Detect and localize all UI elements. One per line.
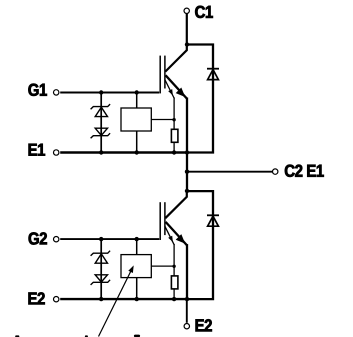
node collector2 junction (185, 189, 189, 193)
caption fragment letter f (134, 335, 140, 337)
IGBT Q1 emitter diagonal (166, 75, 187, 98)
wire block1 bottom lead (136, 131, 138, 153)
IGBT Q2 collector diagonal (165, 191, 187, 218)
IGBT Q1 collector diagonal (165, 45, 187, 72)
resistor R2 (171, 276, 178, 289)
IGBT Q1 body bar right (164, 56, 166, 89)
annotation arrow to control block (99, 265, 134, 336)
node collector1 junction (185, 42, 189, 46)
wire E2 (60, 298, 187, 300)
wire block2 bottom lead (136, 278, 138, 300)
IGBT Q2 sense emitter diagonal (165, 226, 175, 245)
wire diode1 branch (187, 45, 213, 153)
terminal E2 left (54, 297, 59, 302)
node E2 resistor junction (172, 297, 176, 301)
node G1 block junction (135, 90, 139, 94)
terminal C1 (184, 8, 189, 13)
wire E2 terminal vertical (186, 299, 188, 323)
IGBT Q1 emitter arrowhead (176, 88, 186, 98)
IGBT Q2 emitter diagonal (166, 222, 187, 245)
label C2 E1 (285, 165, 324, 177)
IGBT Q1 sense arrowhead (168, 89, 173, 95)
zener diode Z3 (91, 251, 111, 264)
IGBT Q2 emitter arrowhead (176, 234, 186, 244)
zener diode Z4 (91, 275, 111, 285)
wire resistor1 bottom lead (173, 142, 175, 152)
wire C1 vertical (186, 14, 188, 45)
wire zener1 vertical (100, 93, 102, 153)
wire block1 right lead (151, 119, 174, 121)
terminal G1 (54, 90, 59, 95)
wire zener2 vertical (100, 239, 102, 299)
IGBT Q2 sense arrowhead (168, 236, 173, 242)
wire block2 top lead (136, 239, 138, 255)
node G2 block junction (135, 237, 139, 241)
wire G1 (60, 92, 159, 94)
control block U2 (121, 255, 151, 278)
IGBT Q1 gate bar left (159, 56, 161, 94)
label E1 (29, 144, 45, 156)
wire E1 (60, 151, 187, 153)
caption fragment letter 1 (15, 335, 19, 337)
wire resistor2 bottom lead (173, 289, 175, 299)
wire diode2 branch (187, 191, 213, 299)
diode D2 (207, 215, 219, 226)
diode D1 (207, 69, 219, 80)
label E2 bottom (196, 319, 212, 331)
wire sense2 vertical (173, 244, 175, 276)
node E1 resistor junction (172, 150, 176, 154)
node sense1 junction (172, 118, 175, 121)
wire emitter2 vertical (186, 244, 188, 299)
node C2E1 junction (185, 170, 189, 174)
node E2 block junction (135, 297, 139, 301)
wire emitter1 vertical (186, 98, 188, 153)
node E1 zener junction (99, 150, 103, 154)
label G2 (29, 232, 47, 244)
node E2 zener junction (99, 297, 103, 301)
wire sense1 vertical (173, 98, 175, 130)
wire C2E1 horizontal (187, 171, 272, 173)
IGBT Q1 sense emitter diagonal (165, 80, 175, 99)
zener diode Z1 (91, 104, 111, 117)
node E2 main junction (185, 297, 189, 301)
control block U1 (121, 108, 151, 131)
zener diode Z2 (91, 128, 111, 138)
caption fragment letter 2 (85, 335, 88, 337)
wire G2 (60, 238, 159, 240)
node G1 zener junction (99, 90, 103, 94)
terminal E1 (54, 150, 59, 155)
node sense2 junction (172, 265, 175, 268)
node G2 zener junction (99, 237, 103, 241)
wire midpoint vertical (186, 153, 188, 191)
label G1 (28, 84, 46, 96)
node E1 block junction (135, 150, 139, 154)
resistor R1 (171, 129, 178, 142)
IGBT Q2 body bar right (164, 202, 166, 235)
IGBT Q2 gate bar left (159, 202, 161, 240)
terminal G2 (54, 237, 59, 242)
label C1 (195, 6, 213, 18)
terminal E2 bottom (184, 324, 189, 329)
wire block1 top lead (136, 93, 138, 109)
label E2 left (29, 292, 45, 304)
node E1 main junction (185, 150, 189, 154)
wire block2 right lead (151, 265, 174, 267)
terminal C2E1 (273, 169, 278, 174)
